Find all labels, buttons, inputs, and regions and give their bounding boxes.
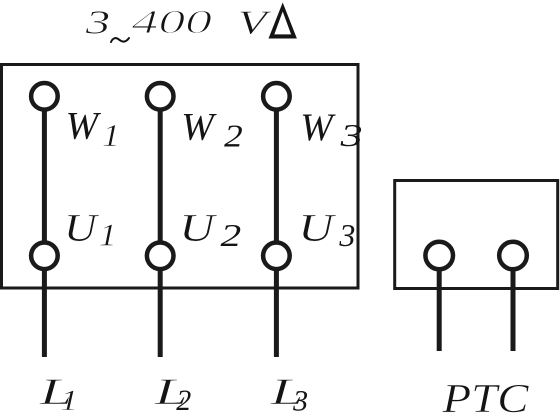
svg-text:3: 3 (338, 217, 355, 253)
wire W3-U3-L3 (274, 96, 279, 357)
wire PTC terminal b (511, 256, 516, 352)
svg-text:W: W (300, 106, 336, 149)
terminal PTC b (499, 242, 527, 270)
wire PTC terminal a (437, 256, 442, 352)
terminal PTC a (425, 242, 453, 270)
label W1 (66, 105, 121, 153)
label W3 (300, 106, 362, 153)
svg-text:2: 2 (224, 118, 243, 154)
terminal U1 (31, 243, 58, 270)
terminal W1 (31, 83, 58, 110)
svg-text:3: 3 (292, 385, 308, 416)
svg-text:2: 2 (176, 384, 191, 416)
terminal U2 (147, 243, 174, 270)
terminal box (2, 65, 359, 289)
svg-text:3: 3 (84, 5, 110, 42)
svg-text:2: 2 (221, 217, 242, 253)
svg-text:V: V (238, 5, 273, 42)
svg-text:1: 1 (102, 117, 120, 153)
svg-text:U: U (179, 207, 218, 250)
PTC box (395, 181, 558, 289)
svg-text:1: 1 (60, 384, 79, 416)
label U2 (179, 207, 241, 253)
svg-text:U: U (298, 207, 337, 250)
svg-text:400: 400 (132, 4, 213, 41)
terminal W2 (147, 83, 174, 110)
svg-text:U: U (64, 206, 100, 249)
svg-text:PTC: PTC (441, 375, 529, 416)
wire W2-U2-L2 (158, 96, 163, 357)
svg-text:3: 3 (339, 117, 362, 153)
label title 3~400 V (84, 4, 272, 42)
label L2 (153, 372, 191, 416)
label U3 (298, 207, 355, 254)
delta symbol (269, 3, 297, 39)
wire W1-U1-L1 (42, 96, 47, 357)
label W2 (181, 106, 242, 154)
label L3 (269, 372, 308, 416)
label L1 (38, 372, 78, 416)
svg-text:1: 1 (99, 216, 117, 252)
terminal U3 (263, 243, 290, 270)
svg-text:W: W (181, 106, 217, 149)
terminal W3 (263, 83, 290, 110)
label U1 (64, 206, 117, 252)
svg-text:W: W (66, 105, 102, 148)
